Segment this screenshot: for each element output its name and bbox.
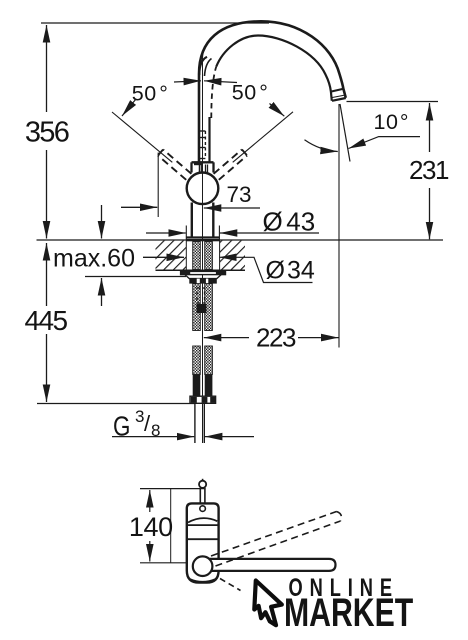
- svg-text:73: 73: [227, 182, 252, 207]
- spout inner edge arc: [216, 36, 331, 101]
- spout inner edge dashed lower part (hidden behind lever): [211, 67, 216, 119]
- side view chord lines: [187, 524, 218, 526]
- flange nut black band: [189, 279, 217, 284]
- deck slab hatch right: [220, 241, 245, 270]
- side view body capsule: [187, 503, 219, 582]
- 50deg left diagonal leader arrow: [122, 99, 136, 116]
- lever tip curve: [199, 57, 207, 75]
- handle squeeze arrow left: [174, 81, 201, 82]
- dashed lever tilted right: [214, 150, 242, 174]
- collar below neck: [192, 162, 214, 172]
- svg-text:Ø34: Ø34: [266, 257, 315, 285]
- max.60 upper arrow pointing down to deck: [101, 205, 103, 239]
- 10deg leader line with arrow to tilted outlet line: [349, 137, 421, 149]
- dimension 356 vertical line: [46, 25, 48, 112]
- svg-text:10°: 10°: [374, 110, 410, 134]
- flange washer plate: [181, 271, 226, 274]
- side view lever arm horizontal: [206, 559, 336, 571]
- wire: countertop deck line: [37, 239, 444, 241]
- supply pipe below nut: [194, 404, 196, 444]
- side view bottom reference line: [140, 562, 191, 564]
- aerator tip line: [332, 98, 346, 101]
- shank solid black lower strips: [193, 375, 201, 397]
- side view dashed lowered lever stub: [220, 579, 241, 591]
- faucet centerline: [203, 43, 209, 444]
- flange trapezoid: [185, 275, 221, 279]
- svg-text:50°: 50°: [232, 81, 269, 105]
- G3/8 dimension arrows: [112, 436, 194, 438]
- wire: spout outlet level reference line: [347, 101, 439, 103]
- body below ball: [191, 203, 193, 238]
- dashed lever tilted left: [158, 150, 247, 180]
- side view bottom inner arc: [190, 579, 216, 582]
- svg-text:G: G: [113, 411, 130, 442]
- threaded shank middle segment: [193, 284, 201, 331]
- side view lever boss circle: [193, 556, 213, 576]
- wire: bottom reference line of shank (445 dim): [37, 403, 195, 405]
- handle squeeze arrow right: [204, 81, 237, 83]
- dimension 73: right arrow pointing left at centerline: [204, 207, 260, 209]
- svg-text:50°: 50°: [132, 82, 169, 106]
- aerator band top line: [331, 89, 344, 92]
- svg-text:MARKET: MARKET: [284, 591, 414, 635]
- wire: top reference line at spout top: [41, 22, 269, 24]
- deck hole edges: [185, 240, 187, 270]
- D43 extension lines: [185, 226, 187, 240]
- base plate on deck: [186, 236, 219, 238]
- dimension D34: right arrow and stepped leader to label: [219, 257, 312, 282]
- hose hidden detail inside shank: [197, 288, 205, 303]
- threaded shank lower segment: [193, 346, 201, 375]
- threaded shank upper segment (through deck): [193, 242, 213, 375]
- wire: lever tip extension line: [157, 153, 159, 218]
- dimension D34: left arrow: [143, 256, 184, 258]
- svg-text:140: 140: [129, 512, 173, 542]
- label G 3/8: [113, 407, 160, 442]
- side view dome arc: [188, 518, 217, 522]
- collar inner ticks: [198, 165, 200, 173]
- side view pin top tick: [202, 479, 204, 481]
- svg-text:356: 356: [25, 117, 69, 149]
- dimension 223 leader left arrow at shank centerline: [204, 337, 249, 339]
- dimension D43: right arrow with leader: [220, 232, 319, 234]
- side view inner small circle: [200, 506, 206, 512]
- spout outer edge (neck left + big arc + outlet right edge): [199, 21, 346, 161]
- svg-text:/: /: [144, 411, 151, 436]
- cartridge hidden detail inside neck: [199, 131, 205, 159]
- ball joint: [187, 173, 219, 205]
- dimension 231 vertical line: [429, 103, 431, 152]
- 50deg angle reference thin line right: [233, 112, 293, 163]
- dimension 73: left arrow to lever-tip extension line: [121, 206, 157, 208]
- shank end nut: [190, 396, 216, 403]
- dimension D43: left arrow: [146, 232, 186, 234]
- 10deg tilted outlet direction line: [340, 104, 350, 162]
- svg-text:445: 445: [25, 305, 68, 336]
- deck slab hatch left: [156, 241, 187, 270]
- dimension 223 right arrow: [298, 337, 339, 339]
- deck bottom line: [156, 269, 246, 271]
- dimension 140 vertical line: [149, 490, 151, 512]
- 50deg angle reference thin line left: [112, 112, 172, 162]
- svg-text:231: 231: [409, 155, 449, 185]
- dimension 445 vertical line: [46, 243, 48, 306]
- side view dashed raised lever: [211, 512, 341, 567]
- side view top reference line: [140, 488, 204, 490]
- side view projection vertical line: [170, 489, 172, 563]
- lever tip inner curve: [205, 59, 212, 77]
- 50deg right diagonal leader arrow: [270, 104, 285, 117]
- aerator mid thin line: [332, 95, 345, 98]
- side view spout pin stem: [199, 488, 201, 504]
- logo cursor pointer: [254, 581, 281, 626]
- swivel arc arrow pointing at outlet vertical line: [305, 140, 338, 152]
- neck right edge: [208, 117, 210, 162]
- collar top-left dark fill: [194, 161, 203, 165]
- max.60 lower arrow pointing up: [101, 278, 103, 306]
- side view spout pin circle: [199, 481, 206, 488]
- svg-text:max.60: max.60: [53, 245, 135, 273]
- svg-text:223: 223: [256, 323, 296, 353]
- svg-text:Ø43: Ø43: [263, 207, 316, 237]
- max.60 lower reference line (flange bottom): [85, 276, 186, 278]
- wire: outlet vertical projection line down to 223 dim: [338, 104, 340, 348]
